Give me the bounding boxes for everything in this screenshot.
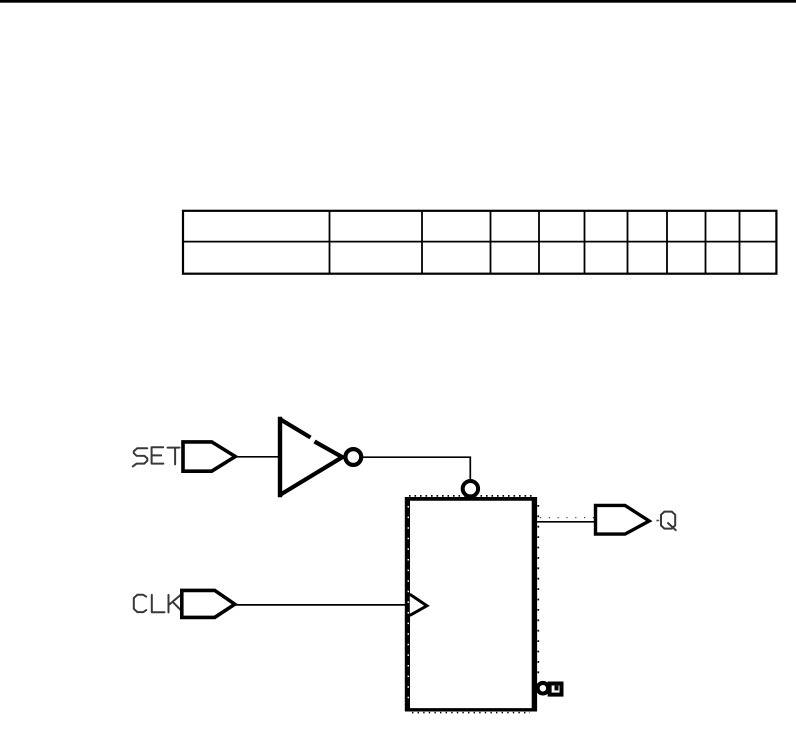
- scan texture ticks above top edge: [409, 495, 533, 497]
- timing table grid: [183, 211, 776, 274]
- wire CLK to FF: [234, 604, 408, 606]
- wire SET to inverter: [234, 456, 281, 458]
- FF inverted reset pin bubble: [538, 683, 549, 694]
- scan texture ticks right of right edge: [537, 505, 539, 680]
- wire inverter to FF top: [363, 457, 471, 481]
- FF reset pin box: [550, 684, 562, 695]
- clock pin triangle on FF: [410, 594, 427, 615]
- label SET: [133, 447, 180, 466]
- tick inside reset pin box: [555, 686, 559, 691]
- label CLK: [134, 595, 181, 613]
- connector Q output: [596, 505, 650, 534]
- scan texture white dots on left edge: [407, 506, 409, 700]
- connector CLK input: [182, 590, 235, 617]
- inverter U1 triangle: [279, 417, 344, 497]
- label Q: [661, 512, 676, 531]
- stub after Q connector: [656, 520, 659, 522]
- FF top bubble (inverting SET pin): [463, 481, 478, 496]
- scan dots above Q wire: [540, 517, 594, 519]
- inverter output bubble: [345, 449, 361, 465]
- flip-flop U2 body: [405, 497, 537, 711]
- wire FF to Q connector: [536, 521, 596, 523]
- connector SET input: [183, 442, 235, 471]
- scan texture ticks below bottom edge: [412, 712, 530, 714]
- top rule bar: [0, 0, 796, 3]
